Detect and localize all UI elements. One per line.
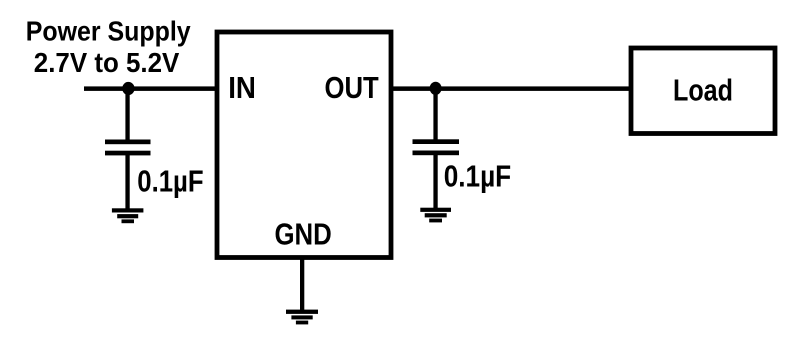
regulator box U1 [217, 32, 391, 258]
wire input junction down to C1 [125, 88, 129, 140]
ground symbol at C1 [112, 208, 143, 223]
svg-text:GND: GND [275, 217, 332, 251]
svg-text:IN: IN [228, 71, 256, 105]
load box [631, 48, 775, 134]
svg-text:OUT: OUT [325, 71, 380, 105]
svg-text:2.7V to 5.2V: 2.7V to 5.2V [34, 47, 180, 78]
svg-text:Power Supply: Power Supply [26, 15, 191, 46]
capacitor C2 0.1uF plates [413, 139, 460, 155]
wire output junction down to C2 [433, 88, 437, 140]
svg-text:0.1µF: 0.1µF [444, 159, 512, 193]
node output junction [430, 82, 442, 95]
wire GND pin to ground [300, 257, 304, 311]
svg-text:0.1µF: 0.1µF [137, 165, 203, 199]
wire input supply to IN [84, 86, 217, 91]
svg-text:Load: Load [673, 72, 733, 107]
capacitor C1 0.1uF plates [105, 140, 151, 156]
wire OUT to load [391, 86, 631, 91]
wire C1 to ground [125, 155, 129, 210]
ground symbol at C2 [420, 208, 451, 223]
node input junction [122, 82, 134, 95]
wire C2 to ground [433, 155, 437, 209]
ground symbol at GND pin [286, 310, 318, 325]
